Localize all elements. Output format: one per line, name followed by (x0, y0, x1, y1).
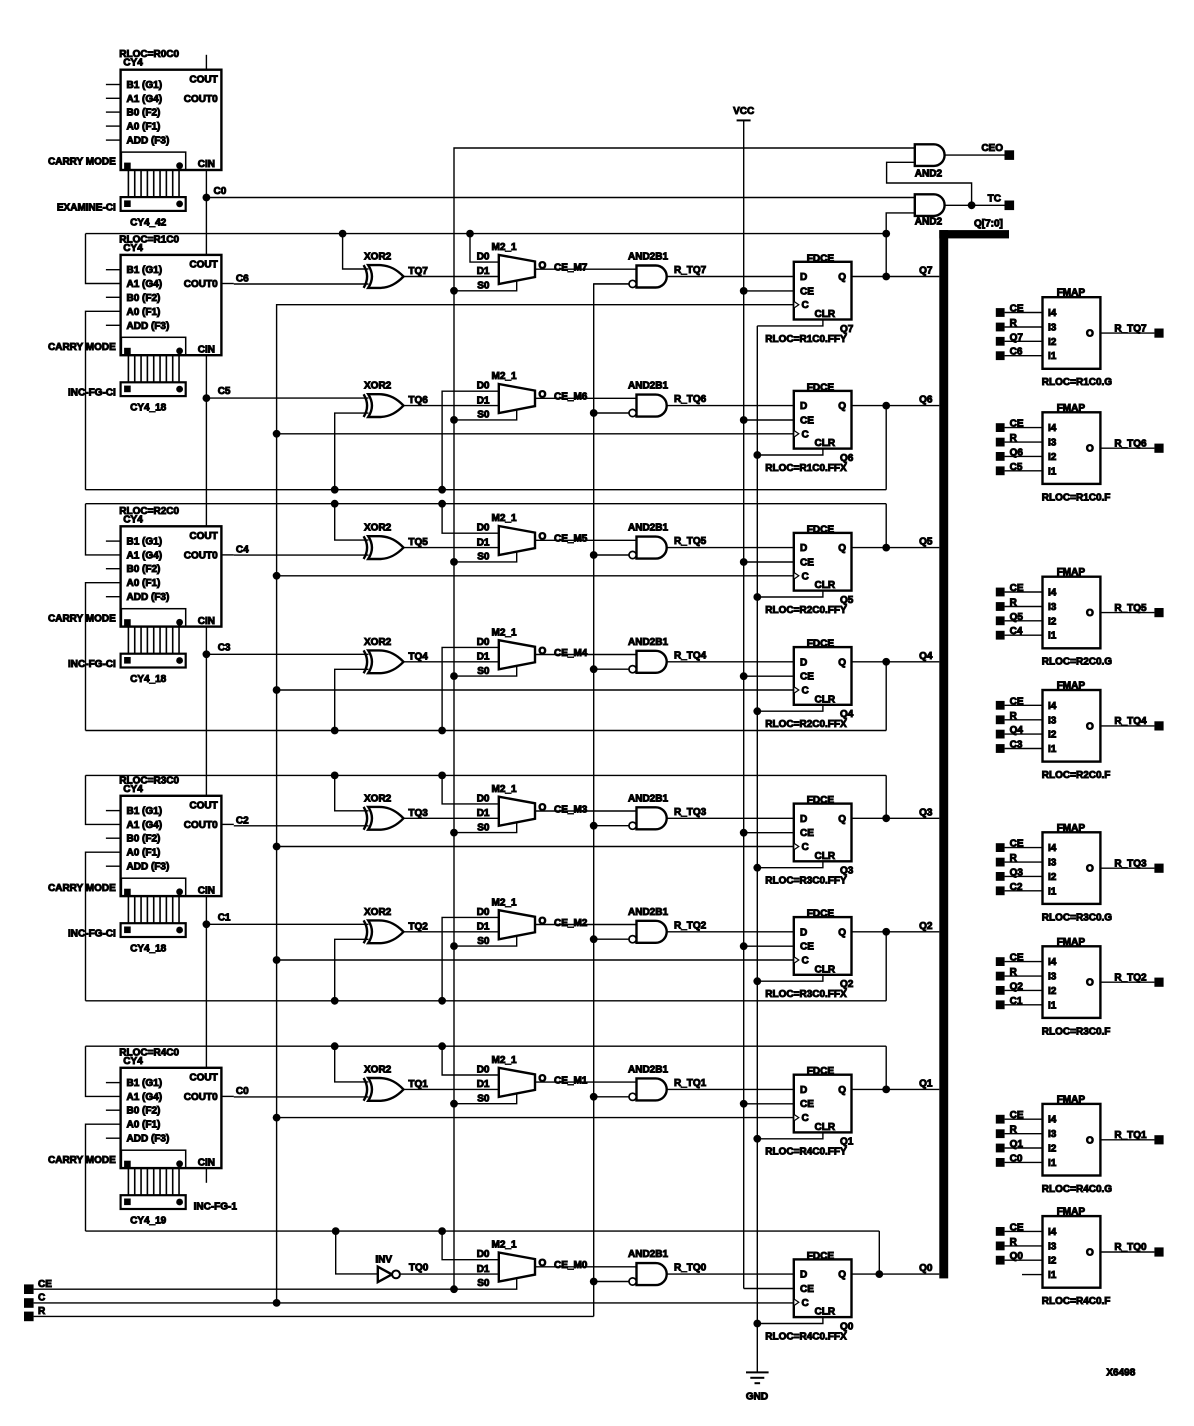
wire CE to FMAP R1C0.G I4 (1005, 312, 1043, 314)
wire TQ7 to M2_1 D1 (404, 276, 499, 278)
svg-text:I1: I1 (1048, 1000, 1057, 1011)
input pad R (FMAP R2C0.G) (996, 598, 1018, 611)
svg-text:ADD (F3): ADD (F3) (127, 321, 170, 332)
svg-text:O: O (1086, 721, 1094, 732)
flip-flop FDCE Q3 (RLOC=R3C0.FFY) (765, 795, 853, 887)
svg-text:C6: C6 (236, 274, 249, 285)
svg-text:RLOC=R4C0.FFY: RLOC=R4C0.FFY (765, 1147, 847, 1158)
svg-text:O: O (1086, 608, 1094, 619)
svg-text:TQ6: TQ6 (408, 395, 428, 406)
svg-text:A1 (G4): A1 (G4) (127, 1092, 163, 1103)
node GND rail CLR branch row Q1 (753, 1135, 761, 1143)
svg-text:RLOC=R2C0.FFY: RLOC=R2C0.FFY (765, 605, 847, 616)
wire R to FMAP R3C0.F I3 (1005, 975, 1043, 977)
svg-text:R_TQ0: R_TQ0 (1114, 1242, 1147, 1253)
inverter INV (output TQ0) (375, 1255, 428, 1283)
svg-text:C2: C2 (236, 815, 249, 826)
wire C6 to XOR2 TQ7 input (234, 274, 369, 285)
wire Q0 feedback (86, 1230, 880, 1232)
wire R_TQ0 to FDCE D (667, 1273, 794, 1275)
svg-text:CE: CE (800, 942, 814, 953)
node R rail branch row Q3 (590, 822, 598, 830)
svg-text:O: O (1086, 329, 1094, 340)
wire Q7 feedback to M2_1 D0 (470, 234, 499, 263)
svg-text:CIN: CIN (198, 616, 215, 627)
node C rail branch row Q5 (273, 572, 281, 580)
svg-text:I2: I2 (1048, 337, 1057, 348)
svg-text:D: D (800, 272, 807, 283)
svg-text:C: C (802, 686, 809, 697)
wire Q1 feedback to R4C0 A1 (86, 1046, 121, 1096)
svg-text:COUT: COUT (189, 800, 217, 811)
svg-text:Q4: Q4 (919, 651, 933, 662)
output pad R_TQ4 (1154, 721, 1163, 730)
svg-text:D: D (800, 814, 807, 825)
svg-text:R_TQ4: R_TQ4 (674, 650, 707, 661)
svg-text:RLOC=R4C0.G: RLOC=R4C0.G (1042, 1184, 1113, 1195)
svg-text:C0: C0 (236, 1086, 249, 1097)
node C1 (203, 912, 231, 928)
output pad R_TQ2 (1154, 978, 1163, 987)
svg-text:CIN: CIN (198, 344, 215, 355)
and-gate AND2B1 (output R_TQ4) (628, 637, 707, 673)
wire Q5 output to feedback (885, 504, 887, 548)
svg-text:RLOC=R3C0.G: RLOC=R3C0.G (1042, 912, 1113, 923)
mux M2_1 (output CE_M4) (477, 627, 547, 677)
svg-text:A0 (F1): A0 (F1) (127, 848, 161, 859)
svg-text:I2: I2 (1048, 616, 1057, 627)
node Q6 output feedback branch (882, 402, 890, 410)
function-map FMAP R_TQ3 (RLOC=R3C0.G) (1042, 823, 1113, 924)
node Q2 feedback XOR branch (331, 997, 339, 1005)
wire FDCE Q3 CLR to GND rail (757, 861, 823, 867)
svg-text:D0: D0 (477, 523, 490, 534)
input pad R (24, 1306, 46, 1321)
wire R rail to AND2B1 row Q4 (594, 668, 629, 670)
wire FMAP output R_TQ1 (1100, 1130, 1154, 1141)
svg-text:CIN: CIN (198, 159, 215, 170)
svg-text:CARRY MODE: CARRY MODE (48, 157, 116, 168)
svg-text:C0: C0 (214, 186, 227, 197)
input pad CE (FMAP R2C0.G) (996, 583, 1024, 596)
svg-text:Q: Q (838, 543, 846, 554)
xor-gate XOR2 (output TQ1) (364, 1064, 429, 1100)
wire R1C0 COUT0 stub (net C6) (221, 283, 233, 285)
wire Q2 feedback to R3C0 A0 (86, 852, 121, 1001)
svg-text:COUT0: COUT0 (184, 820, 218, 831)
and-gate AND2B1 (output R_TQ7) (628, 252, 707, 288)
carry-logic block CY4_18 CY4 RLOC=R2C0 (INC-FG-CI mode) (48, 506, 221, 685)
wire Q4 output to feedback (885, 662, 887, 731)
svg-text:Q: Q (838, 927, 846, 938)
svg-text:ADD (F3): ADD (F3) (127, 862, 170, 873)
svg-text:I1: I1 (1048, 744, 1057, 755)
node R rail branch row Q0 (590, 1278, 598, 1286)
svg-text:D: D (800, 1270, 807, 1281)
svg-text:COUT0: COUT0 (184, 94, 218, 105)
wire C0 to XOR2 TQ1 input (234, 1096, 369, 1098)
wire Q6 output to feedback (885, 406, 887, 490)
node VCC rail branch row Q6 (740, 416, 748, 424)
svg-text:I2: I2 (1048, 872, 1057, 883)
wire C4 to FMAP R2C0.G I1 (1005, 634, 1043, 636)
wire Q4 feedback to M2_1 D0 (442, 647, 499, 730)
wire Q4 feedback (86, 730, 887, 732)
wire C vertical rail (277, 305, 794, 1303)
wire R0C0 CIN to node C0 (205, 170, 207, 198)
svg-text:R_TQ6: R_TQ6 (674, 394, 707, 405)
wire Q3 feedback to XOR2 input (335, 775, 369, 810)
svg-text:CY4: CY4 (123, 784, 143, 795)
svg-text:FMAP: FMAP (1057, 403, 1086, 414)
wire FDCE Q6 CLR to GND rail (757, 449, 823, 455)
svg-text:Q: Q (838, 814, 846, 825)
svg-text:S0: S0 (477, 281, 490, 292)
svg-text:I2: I2 (1048, 452, 1057, 463)
node Q2 feedback D0 branch (438, 997, 446, 1005)
input pad C (24, 1293, 45, 1308)
node GND rail CLR branch row Q0 (753, 1320, 761, 1328)
svg-text:CE_M5: CE_M5 (554, 534, 588, 545)
wire Q6 to FMAP R1C0.F I2 (1005, 455, 1043, 457)
svg-text:R_TQ1: R_TQ1 (1114, 1130, 1147, 1141)
wire Q1 to FMAP R4C0.G I2 (1005, 1147, 1043, 1149)
wire R_TQ7 to FDCE D (667, 276, 794, 278)
node VCC rail branch row Q3 (740, 829, 748, 837)
xor-gate XOR2 (output TQ5) (364, 523, 429, 559)
svg-text:R_TQ7: R_TQ7 (1114, 323, 1147, 334)
wire C2 to FMAP R3C0.G I1 (1005, 890, 1043, 892)
node Q5 feedback D0 branch (438, 500, 446, 508)
mux M2_1 (output CE_M6) (477, 371, 547, 421)
svg-text:FMAP: FMAP (1057, 1094, 1086, 1105)
svg-text:INV: INV (375, 1255, 392, 1266)
wire Q1 feedback to XOR2 input (335, 1046, 369, 1082)
bus Q[7:0] (939, 219, 1009, 1279)
wire R1C0 COUT to node C0 (205, 198, 207, 255)
node C3 (203, 642, 231, 658)
svg-text:D0: D0 (477, 1249, 490, 1260)
svg-text:R_TQ5: R_TQ5 (1114, 603, 1147, 614)
output pad R_TQ0 (1154, 1247, 1163, 1256)
svg-text:A1 (G4): A1 (G4) (127, 550, 163, 561)
wire C rail to FDCE Q4 C (277, 689, 794, 691)
svg-text:M2_1: M2_1 (492, 513, 517, 524)
wire Q0 to FMAP R4C0.F I2 (1005, 1259, 1043, 1261)
svg-text:I4: I4 (1048, 1227, 1057, 1238)
input pad CE (FMAP R3C0.F) (996, 953, 1024, 966)
svg-text:R_TQ2: R_TQ2 (674, 920, 707, 931)
node Q1 feedback D0 branch (438, 1042, 446, 1050)
svg-text:I3: I3 (1048, 715, 1057, 726)
node Q1 feedback XOR branch (331, 1042, 339, 1050)
svg-text:CE_M1: CE_M1 (554, 1075, 588, 1086)
svg-text:R_TQ1: R_TQ1 (674, 1078, 707, 1089)
wire Q5 output to bus (852, 537, 940, 548)
svg-text:D0: D0 (477, 637, 490, 648)
svg-text:COUT: COUT (189, 260, 217, 271)
wire Q3 output to bus (852, 807, 940, 818)
svg-text:FMAP: FMAP (1057, 681, 1086, 692)
wire Q2 feedback to XOR2 input (335, 939, 369, 1001)
wire Q7 feedback to R1C0 A1 (86, 234, 121, 284)
mux M2_1 (output CE_M3) (477, 784, 547, 834)
svg-text:I3: I3 (1048, 1129, 1057, 1140)
wire Q6 feedback to M2_1 D0 (442, 391, 499, 490)
svg-text:I2: I2 (1048, 986, 1057, 997)
svg-text:CEO: CEO (981, 143, 1003, 154)
svg-text:A0 (F1): A0 (F1) (127, 307, 161, 318)
svg-text:GND: GND (746, 1392, 768, 1403)
svg-text:RLOC=R3C0.F: RLOC=R3C0.F (1042, 1026, 1111, 1037)
svg-text:COUT0: COUT0 (184, 1092, 218, 1103)
svg-text:I2: I2 (1048, 730, 1057, 741)
wire R_TQ5 to FDCE D (667, 547, 794, 549)
svg-text:AND2B1: AND2B1 (628, 381, 668, 392)
input pad CE (FMAP R4C0.G) (996, 1110, 1024, 1123)
wire R_TQ3 to FDCE D (667, 817, 794, 819)
wire R rail to AND2B1 row Q7 (594, 283, 629, 285)
svg-text:I4: I4 (1048, 308, 1057, 319)
wire VCC rail to FDCE Q6 CE (744, 419, 794, 421)
input pad Q0 (FMAP R4C0.F) (996, 1251, 1024, 1264)
wire CE to FMAP R3C0.F I4 (1005, 961, 1043, 963)
wire Q6 feedback (86, 489, 887, 491)
svg-text:D: D (800, 1085, 807, 1096)
svg-text:CLR: CLR (815, 580, 836, 591)
wire C3 to XOR2 TQ4 input (206, 653, 368, 655)
wire Q6 output to bus (852, 395, 940, 406)
wire Q0 output to bus (852, 1263, 940, 1274)
wire Q1 feedback to M2_1 D0 (442, 1046, 499, 1075)
mux M2_1 (output CE_M0) (477, 1240, 547, 1290)
output pad R_TQ3 (1154, 864, 1163, 873)
svg-text:CE: CE (800, 286, 814, 297)
svg-text:XOR2: XOR2 (364, 252, 392, 263)
wire R rail to AND2B1 row Q5 (594, 554, 629, 556)
mux M2_1 (output CE_M1) (477, 1055, 547, 1105)
wire R rail to AND2B1 row Q2 (594, 938, 629, 940)
svg-text:S0: S0 (477, 666, 490, 677)
node Q1 output feedback branch (882, 1086, 890, 1094)
wire C5 to XOR2 TQ6 input (206, 397, 368, 399)
svg-text:S0: S0 (477, 410, 490, 421)
wire Q2 to FMAP R3C0.F I2 (1005, 989, 1043, 991)
wire TC to AND2 CEO input (887, 162, 972, 205)
svg-text:B1 (G1): B1 (G1) (127, 265, 163, 276)
svg-text:AND2B1: AND2B1 (628, 252, 668, 263)
node Q0 output feedback branch (875, 1270, 883, 1278)
svg-text:D: D (800, 543, 807, 554)
node C5 (203, 386, 231, 402)
svg-text:D0: D0 (477, 381, 490, 392)
svg-text:I4: I4 (1048, 423, 1057, 434)
wire CE input (34, 1288, 454, 1290)
svg-text:CE: CE (800, 1284, 814, 1295)
svg-text:D0: D0 (477, 252, 490, 263)
wire CE_M1 to AND2B1 (535, 1075, 637, 1086)
wire R_TQ2 to FDCE D (667, 931, 794, 933)
function-map FMAP R_TQ7 (RLOC=R1C0.G) (1042, 288, 1113, 389)
svg-text:C3: C3 (218, 642, 231, 653)
wire Q4 feedback to R2C0 A0 (86, 583, 121, 731)
svg-text:A0 (F1): A0 (F1) (127, 578, 161, 589)
wire CE to FMAP R4C0.F I4 (1005, 1230, 1043, 1232)
svg-text:CLR: CLR (815, 438, 836, 449)
node Q6 feedback D0 branch (438, 486, 446, 494)
svg-text:CE: CE (800, 415, 814, 426)
node Q3 feedback XOR branch (331, 772, 339, 780)
wire FDCE Q0 CLR to GND rail (757, 1317, 823, 1323)
node Q4 feedback XOR branch (331, 727, 339, 735)
svg-text:C: C (802, 1113, 809, 1124)
svg-text:Q6: Q6 (919, 395, 933, 406)
wire CE to FMAP R2C0.F I4 (1005, 704, 1043, 706)
svg-text:O: O (1086, 978, 1094, 989)
svg-text:Q[7:0]: Q[7:0] (974, 219, 1003, 230)
svg-text:D1: D1 (477, 922, 490, 933)
node CE rail S0 branch row Q6 (450, 416, 458, 424)
svg-text:RLOC=R2C0.F: RLOC=R2C0.F (1042, 770, 1111, 781)
wire C0 to AND2 TC input (206, 197, 914, 199)
wire C5 to FMAP R1C0.F I1 (1005, 470, 1043, 472)
wire R rail to AND2B1 row Q1 (594, 1096, 629, 1098)
wire CE_M2 to AND2B1 (535, 918, 637, 929)
svg-text:I3: I3 (1048, 972, 1057, 983)
flip-flop FDCE Q7 (RLOC=R1C0.FFY) (765, 253, 853, 345)
svg-text:FDCE: FDCE (807, 253, 835, 264)
wire R4C0 COUT to node C1 (205, 924, 207, 1068)
svg-text:CLR: CLR (815, 964, 836, 975)
svg-text:CLR: CLR (815, 694, 836, 705)
svg-text:CE: CE (800, 1099, 814, 1110)
node C rail branch row Q3 (273, 843, 281, 851)
wire Q3 feedback to M2_1 D0 (442, 775, 499, 804)
wire CE vertical rail (454, 148, 915, 1290)
wire R rail to AND2B1 row Q3 (594, 825, 629, 827)
svg-text:I4: I4 (1048, 843, 1057, 854)
wire CE_M3 to AND2B1 (535, 804, 637, 815)
wire C rail to FDCE Q5 C (277, 575, 794, 577)
flip-flop FDCE Q1 (RLOC=R4C0.FFY) (765, 1066, 853, 1158)
svg-text:FDCE: FDCE (807, 524, 835, 535)
node CE rail S0 branch row Q3 (450, 829, 458, 837)
wire M2_1 S0 to CE rail (454, 822, 517, 832)
wire Q3 feedback to R3C0 A1 (86, 775, 121, 824)
node Q5 feedback XOR branch (331, 500, 339, 508)
svg-text:D0: D0 (477, 907, 490, 918)
svg-text:M2_1: M2_1 (492, 784, 517, 795)
svg-text:C: C (802, 956, 809, 967)
wire R3C0 COUT0 stub (net C2) (221, 823, 233, 825)
flip-flop FDCE Q5 (RLOC=R2C0.FFY) (765, 524, 853, 616)
svg-text:AND2B1: AND2B1 (628, 907, 668, 918)
input pad C0 (FMAP R4C0.G) (996, 1153, 1023, 1166)
svg-text:A0 (F1): A0 (F1) (127, 1120, 161, 1131)
svg-text:CY4: CY4 (123, 58, 143, 69)
mux M2_1 (output CE_M2) (477, 897, 547, 947)
svg-text:FMAP: FMAP (1057, 937, 1086, 948)
wire R to FMAP R1C0.G I3 (1005, 326, 1043, 328)
node CE rail S0 branch row Q2 (450, 942, 458, 950)
input pad CE (FMAP R3C0.G) (996, 839, 1024, 852)
svg-text:FDCE: FDCE (807, 1066, 835, 1077)
power VCC symbol (733, 106, 754, 120)
wire M2_1 S0 to CE rail (454, 936, 517, 946)
wire VCC rail to FDCE Q1 CE (744, 1103, 794, 1105)
wire TC output (945, 194, 1005, 206)
wire C input to FDCE Q0 C pin (34, 1302, 794, 1304)
svg-text:B0 (F2): B0 (F2) (127, 108, 161, 119)
wire C rail to FDCE Q6 C (277, 433, 794, 435)
input pad Q6 (FMAP R1C0.F) (996, 447, 1024, 460)
wire VCC rail to FDCE Q7 CE (744, 290, 794, 292)
svg-text:TQ0: TQ0 (409, 1262, 429, 1273)
node VCC rail branch row Q5 (740, 558, 748, 566)
svg-text:COUT: COUT (189, 1072, 217, 1083)
svg-text:FDCE: FDCE (807, 382, 835, 393)
node CE rail S0 branch row Q1 (450, 1100, 458, 1108)
svg-text:R_TQ4: R_TQ4 (1114, 716, 1147, 727)
wire TQ6 to M2_1 D1 (404, 405, 499, 407)
svg-text:D: D (800, 927, 807, 938)
svg-text:CY4_18: CY4_18 (130, 674, 167, 685)
wire R input (34, 1315, 594, 1317)
svg-text:CY4: CY4 (123, 243, 143, 254)
wire R_TQ1 to FDCE D (667, 1088, 794, 1090)
svg-text:R: R (38, 1306, 46, 1317)
svg-text:M2_1: M2_1 (492, 371, 517, 382)
svg-text:Q5: Q5 (919, 537, 933, 548)
output pad CEO (1005, 150, 1015, 160)
wire CE to FMAP R1C0.F I4 (1005, 427, 1043, 429)
svg-text:CIN: CIN (198, 885, 215, 896)
svg-text:TQ2: TQ2 (408, 921, 428, 932)
wire VCC rail to FDCE Q3 CE (744, 832, 794, 834)
node R rail branch row Q6 (590, 409, 598, 417)
carry-logic block CY4_18 CY4 RLOC=R1C0 (INC-FG-CI mode) (48, 234, 221, 413)
function-map FMAP R_TQ1 (RLOC=R4C0.G) (1042, 1094, 1113, 1195)
output pad R_TQ5 (1154, 608, 1163, 617)
svg-text:CY4_42: CY4_42 (130, 217, 167, 228)
svg-text:XOR2: XOR2 (364, 637, 392, 648)
svg-text:C4: C4 (236, 545, 249, 556)
wire CE_M5 to AND2B1 (535, 534, 637, 545)
svg-text:RLOC=R1C0.F: RLOC=R1C0.F (1042, 492, 1111, 503)
svg-text:C5: C5 (218, 386, 231, 397)
wire C0 to FMAP R4C0.G I1 (1005, 1161, 1043, 1163)
wire FDCE Q1 CLR to GND rail (757, 1132, 823, 1138)
svg-text:I1: I1 (1048, 1270, 1057, 1281)
svg-text:Q: Q (838, 401, 846, 412)
wire Q0 feedback to INV input (336, 1231, 378, 1274)
xor-gate XOR2 (output TQ6) (364, 381, 429, 417)
xor-gate XOR2 (output TQ2) (364, 907, 429, 943)
input pad R (FMAP R2C0.F) (996, 711, 1018, 724)
and-gate AND2B1 (output R_TQ2) (628, 907, 707, 943)
svg-text:R_TQ3: R_TQ3 (674, 807, 707, 818)
and-gate AND2B1 (output R_TQ5) (628, 523, 707, 559)
svg-text:O: O (1086, 864, 1094, 875)
svg-text:D1: D1 (477, 808, 490, 819)
svg-text:INC-FG-1: INC-FG-1 (194, 1202, 238, 1213)
wire TQ4 to M2_1 D1 (404, 661, 499, 663)
wire Q7 to FMAP R1C0.G I2 (1005, 340, 1043, 342)
wire CE_M7 to AND2B1 (535, 263, 637, 274)
wire TQ5 to M2_1 D1 (404, 547, 499, 549)
svg-text:D1: D1 (477, 1079, 490, 1090)
svg-text:I2: I2 (1048, 1256, 1057, 1267)
